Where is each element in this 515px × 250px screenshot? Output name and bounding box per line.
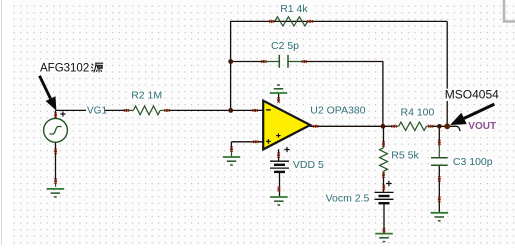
svg-text:R2 1M: R2 1M — [131, 90, 162, 102]
svg-text:C3 100p: C3 100p — [453, 156, 493, 168]
svg-text:R1 4k: R1 4k — [280, 3, 308, 15]
svg-text:AFG3102: AFG3102 — [40, 63, 89, 75]
svg-text:VOUT: VOUT — [468, 121, 496, 132]
svg-text:VG1: VG1 — [87, 106, 107, 117]
svg-text:U2 OPA380: U2 OPA380 — [310, 104, 365, 116]
svg-text:R4 100: R4 100 — [401, 107, 435, 119]
svg-text:VDD 5: VDD 5 — [293, 159, 324, 171]
svg-text:MSO4054: MSO4054 — [445, 88, 499, 102]
svg-text:R5 5k: R5 5k — [391, 150, 419, 162]
svg-text:C2 5p: C2 5p — [271, 40, 299, 52]
svg-text:Vocm 2.5: Vocm 2.5 — [326, 192, 370, 204]
